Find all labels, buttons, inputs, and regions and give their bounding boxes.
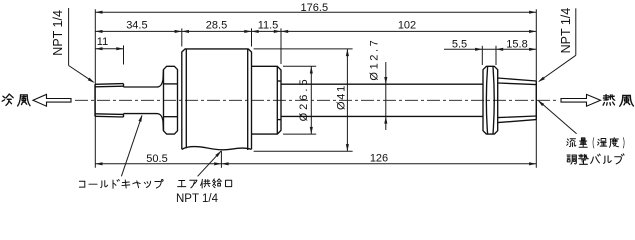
- svg-text:126: 126: [370, 153, 388, 165]
- svg-text:28.5: 28.5: [206, 20, 227, 32]
- svg-text:Ø26.5: Ø26.5: [298, 76, 310, 121]
- svg-text:50.5: 50.5: [146, 153, 167, 165]
- svg-text:15.8: 15.8: [506, 38, 527, 50]
- svg-text:Ø12.7: Ø12.7: [369, 38, 381, 81]
- svg-text:5.5: 5.5: [452, 38, 467, 50]
- svg-text:NPT 1/4: NPT 1/4: [51, 10, 65, 56]
- svg-text:102: 102: [398, 20, 416, 32]
- svg-text:Ø41: Ø41: [336, 84, 348, 110]
- svg-text:11.5: 11.5: [258, 20, 279, 32]
- svg-text:NPT 1/4: NPT 1/4: [176, 193, 219, 205]
- svg-text:176.5: 176.5: [301, 2, 329, 14]
- svg-text:34.5: 34.5: [126, 20, 147, 32]
- svg-text:NPT 1/4: NPT 1/4: [559, 8, 573, 54]
- svg-text:11: 11: [97, 36, 108, 48]
